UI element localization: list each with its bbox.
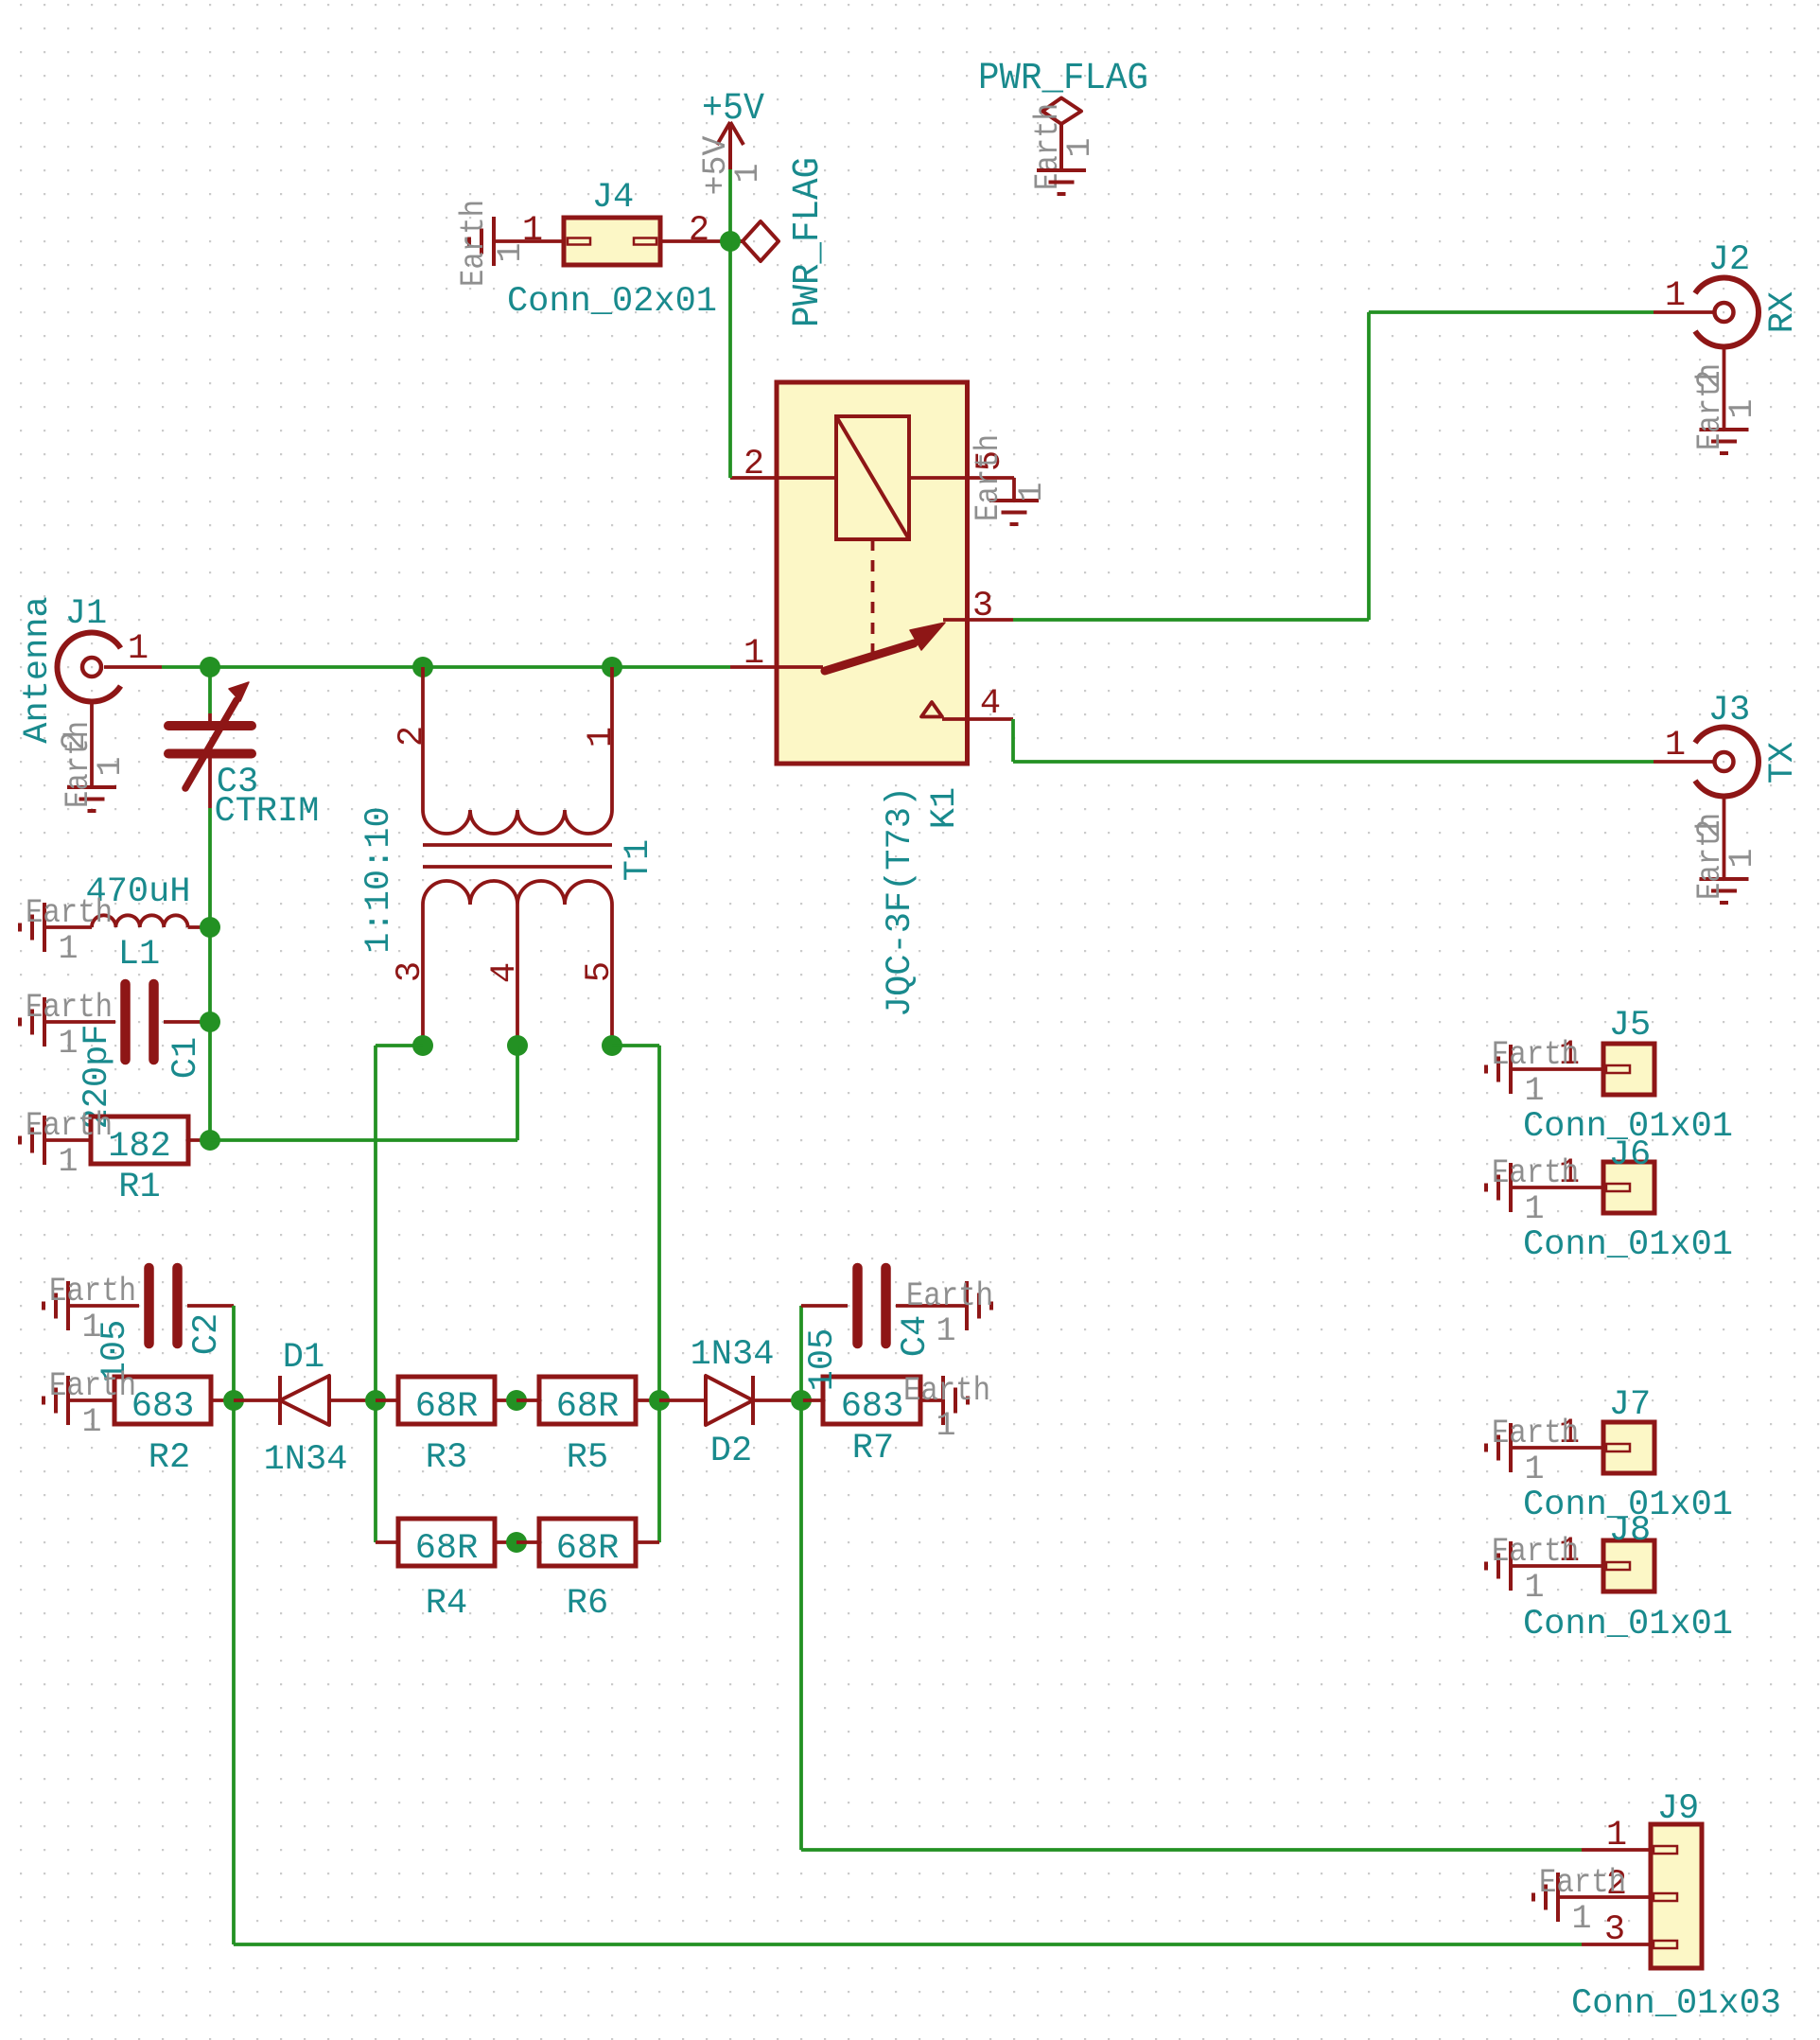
svg-text:C4: C4	[896, 1315, 936, 1357]
junction at T1 pin 1	[602, 657, 622, 677]
svg-text:J4: J4	[592, 178, 634, 218]
svg-text:1: 1	[936, 1312, 955, 1350]
wire C3 down the left bus	[208, 808, 212, 1140]
svg-text:R4: R4	[426, 1584, 467, 1624]
pin 2 of J3	[1723, 796, 1726, 879]
svg-text:PWR_FLAG: PWR_FLAG	[787, 157, 830, 327]
svg-text:1: 1	[492, 242, 530, 262]
svg-text:68R: 68R	[415, 1529, 479, 1569]
ground at J9 pin 2	[1533, 1864, 1626, 1938]
capacitor C4 105	[801, 1268, 967, 1391]
svg-text:2: 2	[689, 211, 709, 251]
svg-text:L1: L1	[118, 935, 160, 975]
junction at C1	[200, 1011, 220, 1032]
svg-text:C1: C1	[166, 1037, 206, 1079]
connector J7 Conn_01x01	[1511, 1385, 1733, 1525]
svg-text:683: 683	[841, 1387, 904, 1427]
connector J5 Conn_01x01	[1511, 1006, 1733, 1147]
svg-text:CTRIM: CTRIM	[214, 792, 319, 832]
svg-text:JQC-3F(T73): JQC-3F(T73)	[881, 786, 920, 1017]
svg-text:3: 3	[391, 961, 430, 982]
relay coil	[836, 416, 909, 539]
svg-text:D1: D1	[283, 1338, 324, 1378]
pin 1 of J9	[1582, 1848, 1651, 1852]
svg-text:C2: C2	[187, 1313, 227, 1355]
svg-text:1: 1	[1524, 1190, 1544, 1228]
svg-text:R1: R1	[118, 1168, 160, 1207]
svg-text:R3: R3	[426, 1438, 467, 1478]
svg-text:1: 1	[1724, 398, 1761, 418]
ground at C1	[20, 989, 113, 1063]
svg-text:2: 2	[744, 445, 764, 484]
ground at J5	[1486, 1036, 1579, 1110]
svg-text:Earth: Earth	[26, 894, 113, 932]
svg-text:1: 1	[1524, 1072, 1544, 1110]
secondary winding	[423, 881, 612, 905]
wire junction to C3	[208, 667, 212, 713]
ground at J7	[1486, 1415, 1579, 1488]
ground at R2	[44, 1367, 136, 1441]
wire T1 pin4 to R1	[210, 1138, 517, 1142]
svg-text:J6: J6	[1609, 1135, 1651, 1175]
capacitor C2 105	[68, 1268, 234, 1382]
svg-text:Earth: Earth	[26, 989, 113, 1027]
junction T1 pin 5	[602, 1035, 622, 1056]
svg-text:1: 1	[729, 163, 767, 183]
junction T1 pin 3	[412, 1035, 433, 1056]
wire T1 pin5 right	[612, 1044, 659, 1047]
svg-text:Conn_01x01: Conn_01x01	[1523, 1605, 1733, 1644]
junction D2/R7/C4	[791, 1390, 812, 1411]
svg-text:1: 1	[1571, 1900, 1591, 1938]
svg-text:2: 2	[393, 726, 432, 747]
svg-text:PWR_FLAG: PWR_FLAG	[978, 58, 1148, 100]
wire bottom bus to J9 pin 3	[234, 1943, 1582, 1946]
junction at C3 top	[200, 657, 220, 677]
svg-text:182: 182	[108, 1127, 171, 1167]
ground at C2	[44, 1273, 136, 1346]
pin 1 of J1	[104, 665, 162, 669]
ground at PWR_FLAG2	[1037, 168, 1086, 172]
power symbol +5V	[697, 88, 767, 196]
svg-text:1: 1	[1061, 137, 1099, 157]
wire +5V junction to K1 pin 2	[728, 241, 732, 478]
pin 3 of K1	[943, 618, 968, 622]
resistor R5 68R	[516, 1377, 659, 1478]
pin 2 of J1	[90, 701, 94, 787]
svg-text:RX: RX	[1763, 291, 1803, 333]
wire K1 pin4 to J3 (TX)	[1011, 719, 1015, 762]
pin 4 of K1	[942, 717, 968, 721]
resistor R7 683	[801, 1377, 943, 1468]
wire T1 pin3 left	[376, 1044, 423, 1047]
connector J1 Antenna	[18, 594, 162, 787]
svg-text:1: 1	[128, 629, 149, 669]
trimmer capacitor C3 CTRIM	[168, 682, 320, 832]
junction R2/D1/C2	[223, 1390, 244, 1411]
svg-text:Earth: Earth	[1539, 1864, 1626, 1902]
svg-text:TX: TX	[1763, 742, 1803, 783]
ground at J2 pin 2	[1691, 363, 1761, 453]
resistor R3 68R	[376, 1377, 516, 1478]
svg-text:1: 1	[936, 1407, 955, 1445]
svg-text:R5: R5	[567, 1438, 608, 1478]
wire T1 pin4 down	[516, 1046, 519, 1140]
wire C2 down to J9 pin3	[232, 1306, 236, 1944]
svg-text:Earth: Earth	[26, 1107, 113, 1145]
svg-text:1: 1	[58, 930, 78, 968]
junction D1/R3/bus	[365, 1390, 386, 1411]
core	[423, 843, 612, 847]
wire to J3 pin 1	[1013, 760, 1654, 764]
connector J8 Conn_01x01	[1511, 1511, 1733, 1644]
connector J6 Conn_01x01	[1511, 1135, 1733, 1265]
ground at L1	[20, 894, 113, 968]
relay common arm	[825, 643, 914, 671]
svg-text:1: 1	[1724, 848, 1761, 868]
svg-text:Earth: Earth	[906, 1277, 993, 1315]
resistor R1 182	[44, 1117, 210, 1207]
svg-text:Conn_01x01: Conn_01x01	[1523, 1225, 1733, 1265]
svg-text:1: 1	[1665, 726, 1686, 765]
resistor R2 683	[68, 1377, 234, 1478]
connector J3 TX	[1654, 691, 1803, 879]
wire K1 pin3 to J2 (RX)	[1013, 618, 1369, 622]
svg-text:1N34: 1N34	[691, 1335, 775, 1375]
svg-text:1: 1	[1665, 276, 1686, 316]
pin 2 of J9	[1558, 1895, 1651, 1899]
ground at J3 pin 2	[1691, 813, 1761, 903]
wire vertical RX	[1367, 312, 1371, 620]
diode D2 1N34	[659, 1335, 801, 1471]
svg-text:R6: R6	[567, 1584, 608, 1624]
svg-text:1: 1	[81, 1309, 101, 1346]
transformer T1 1:10:10	[359, 667, 658, 1046]
relay K1 JQC-3F(T73)	[730, 382, 1014, 1017]
inductor L1 470uH	[44, 872, 210, 975]
svg-text:J9: J9	[1657, 1789, 1699, 1829]
svg-text:68R: 68R	[415, 1387, 479, 1427]
svg-text:R2: R2	[149, 1438, 190, 1478]
wire +5V to junction	[728, 169, 732, 241]
svg-text:1: 1	[81, 1403, 101, 1441]
svg-text:Earth: Earth	[49, 1273, 136, 1310]
svg-text:68R: 68R	[556, 1529, 620, 1569]
svg-text:T1: T1	[619, 839, 658, 881]
svg-text:4: 4	[980, 684, 1001, 724]
svg-text:Earth: Earth	[1492, 1415, 1579, 1452]
svg-text:Earth: Earth	[455, 200, 493, 287]
svg-text:Conn_01x03: Conn_01x03	[1571, 1984, 1781, 2024]
svg-text:3: 3	[972, 587, 993, 626]
connector J9 Conn_01x03	[1558, 1789, 1781, 2024]
svg-text:5: 5	[580, 961, 620, 982]
wire D2 junction down to J9 pin1	[799, 1400, 803, 1850]
junction R3/R5	[506, 1390, 527, 1411]
svg-text:Earth: Earth	[1492, 1533, 1579, 1571]
pin 5 of K1	[909, 476, 968, 480]
svg-text:1:10:10: 1:10:10	[359, 806, 399, 953]
connector J4 Conn_02x01	[494, 178, 730, 322]
svg-text:1N34: 1N34	[264, 1440, 348, 1480]
svg-text:Conn_02x01: Conn_02x01	[507, 282, 717, 322]
svg-text:1: 1	[1524, 1451, 1544, 1488]
ground at R1	[20, 1107, 113, 1181]
svg-text:Earth: Earth	[49, 1367, 136, 1405]
svg-text:68R: 68R	[556, 1387, 620, 1427]
relay NO contact	[921, 702, 942, 717]
ground at J1 pin 2	[60, 721, 130, 811]
wire to J2 pin 1	[1369, 310, 1654, 314]
svg-text:3: 3	[1604, 1910, 1625, 1950]
capacitor C1 220pF	[44, 984, 210, 1130]
svg-text:1: 1	[1524, 1569, 1544, 1607]
svg-text:J1: J1	[65, 594, 107, 634]
wire T1 pin5 bus down	[657, 1046, 661, 1542]
wire bus to J9 pin 1	[801, 1848, 1582, 1852]
svg-text:1: 1	[1013, 482, 1051, 501]
ground at R7	[903, 1372, 990, 1445]
svg-text:J5: J5	[1609, 1006, 1651, 1046]
pin 2 of K1	[730, 476, 777, 480]
svg-text:J8: J8	[1609, 1511, 1651, 1551]
diode D1 1N34	[234, 1338, 376, 1480]
junction T1 pin 4	[507, 1035, 528, 1056]
wire D2 junction up to C4	[799, 1306, 803, 1400]
junction R5/D2/bus	[649, 1390, 670, 1411]
svg-text:K1: K1	[925, 787, 965, 829]
svg-text:1: 1	[582, 727, 621, 747]
svg-text:J2: J2	[1708, 240, 1750, 280]
svg-text:1: 1	[92, 756, 130, 776]
pin 1 of K1	[730, 665, 823, 669]
pin 2 of J2	[1723, 346, 1726, 430]
svg-text:Earth: Earth	[1492, 1154, 1579, 1192]
power flag PWR_FLAG1	[730, 157, 830, 327]
wire J1 to K1 pin 1	[162, 665, 730, 669]
svg-text:+5V: +5V	[702, 88, 764, 131]
svg-text:4: 4	[485, 962, 525, 983]
wire T1 pin3 bus down	[374, 1046, 377, 1542]
junction at R1	[200, 1130, 220, 1151]
junction at L1	[200, 917, 220, 938]
svg-text:R7: R7	[852, 1429, 894, 1468]
svg-text:Antenna: Antenna	[18, 596, 58, 743]
primary winding	[421, 667, 425, 810]
resistor R6 68R	[516, 1519, 659, 1624]
svg-text:1: 1	[1606, 1816, 1627, 1855]
power flag PWR_FLAG2	[978, 58, 1148, 190]
ground at C4	[906, 1277, 993, 1350]
svg-text:J7: J7	[1609, 1385, 1651, 1425]
svg-text:1: 1	[58, 1143, 78, 1181]
svg-text:1: 1	[744, 634, 764, 674]
ground at J6	[1486, 1154, 1579, 1228]
ground at J8	[1486, 1533, 1579, 1607]
connector J2 RX	[1654, 240, 1803, 430]
ground at J4 pin 1	[455, 200, 530, 287]
junction at +5V / J4 / relay coil	[720, 231, 741, 252]
svg-text:683: 683	[131, 1387, 195, 1427]
svg-text:Earth: Earth	[970, 434, 1007, 521]
resistor R4 68R	[376, 1519, 516, 1624]
svg-text:1: 1	[58, 1025, 78, 1063]
ground at K1 pin 5	[970, 434, 1051, 524]
junction at T1 pin 2	[412, 657, 433, 677]
svg-text:D2: D2	[710, 1432, 752, 1471]
svg-text:Earth: Earth	[1492, 1036, 1579, 1074]
svg-text:J3: J3	[1708, 691, 1750, 730]
svg-text:Earth: Earth	[903, 1372, 990, 1410]
junction R4/R6	[506, 1532, 527, 1553]
pin 3 of J9	[1582, 1943, 1651, 1946]
svg-text:105: 105	[803, 1328, 843, 1392]
